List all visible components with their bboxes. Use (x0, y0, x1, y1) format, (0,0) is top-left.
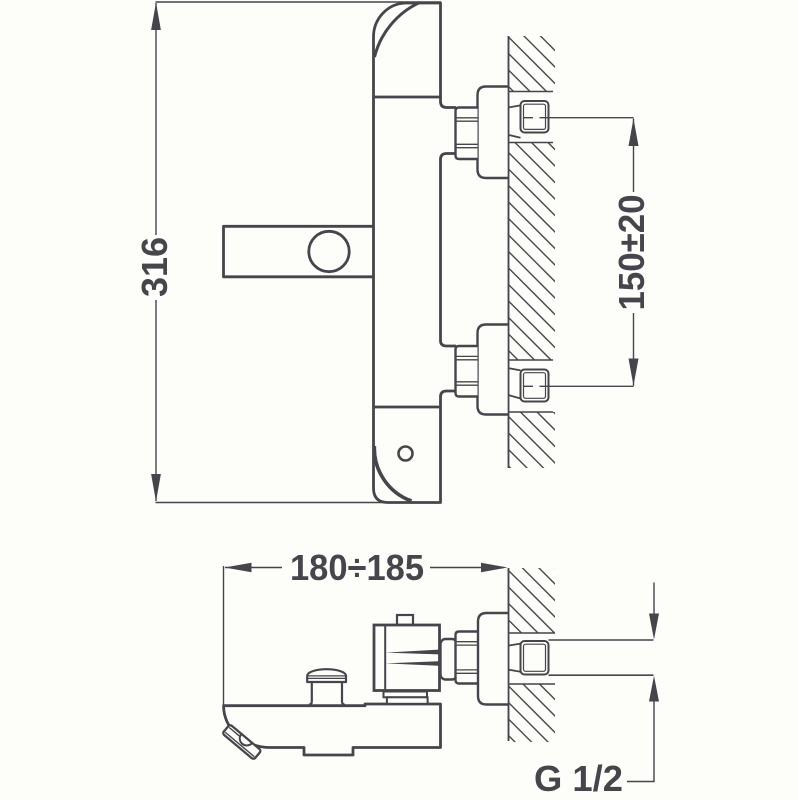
upper eccentric cone (509, 105, 521, 107)
svg-text:150±20: 150±20 (611, 195, 652, 311)
dimension 316 extension line bottom (156, 502, 441, 504)
lower wall hole edges (509, 359, 554, 361)
plan view union nut (456, 632, 478, 684)
lower nut facet lines (457, 355, 478, 357)
top cap inner arc (375, 3, 420, 57)
G 1/2 arrow up (649, 676, 659, 702)
dimension 316 extension line top (156, 1, 442, 3)
spout body outline (plan view) (224, 704, 441, 755)
G 1/2 dimension lines (653, 583, 655, 617)
lower union nut (456, 346, 478, 397)
plan nut facet lines (457, 641, 478, 643)
G 1/2 arrow down (649, 614, 659, 640)
upper pipe centerline (524, 117, 534, 119)
dimension 150±20 arrow up (629, 119, 639, 147)
upper wall hole edges (509, 91, 554, 93)
bottom cap inner arc (374, 446, 411, 501)
lower pipe centerline (524, 385, 534, 387)
plan hex wall plug (521, 641, 549, 675)
wall hatching (upper view) (509, 0, 557, 514)
upper hex wall plug (521, 101, 549, 133)
wall face line overlay (upper) (508, 36, 510, 468)
handle lever (224, 226, 374, 276)
lower view wall hole edges (509, 632, 556, 634)
dimension 180÷185 arrow right (481, 563, 508, 573)
pipe outline G 1/2 (549, 639, 654, 641)
lower wall flange (478, 325, 509, 415)
dimension 150±20 line (633, 119, 635, 193)
lower eccentric cone (509, 368, 521, 370)
cartridge housing (374, 625, 440, 691)
upper union nut (456, 108, 478, 160)
diverter knob cap (307, 669, 346, 682)
wall face line (lower view) (508, 568, 510, 741)
svg-text:G 1/2: G 1/2 (534, 758, 623, 799)
G 1/2 leader (627, 781, 655, 783)
faucet body outline (side view) (374, 3, 457, 503)
dimension 150±20 arrow down (629, 359, 639, 386)
housing base steps (384, 692, 428, 698)
wall face line overlay (lower) (508, 568, 510, 741)
screw hole on body (399, 447, 413, 461)
housing top tab (397, 615, 413, 625)
handle pivot circle (309, 231, 349, 271)
wall hatching (lower view) (509, 521, 557, 783)
diverter knob stem (309, 682, 312, 705)
upper nut facet lines (457, 117, 478, 119)
housing lever wedge 1 (386, 650, 439, 655)
dimension 180÷185 extension line (223, 566, 225, 705)
top cap bottom line (374, 96, 441, 99)
bottom cap top line (374, 406, 441, 409)
dimension 180÷185 line (225, 567, 282, 569)
svg-text:316: 316 (134, 237, 175, 297)
lower hex wall plug (521, 370, 549, 402)
plan view wall flange (478, 613, 509, 705)
aerator on spout tip (222, 724, 261, 760)
wall face line (upper view) (508, 36, 510, 468)
housing lever wedge 2 (386, 661, 439, 666)
housing inner edge line (384, 626, 386, 690)
dimension 316 arrow up (151, 3, 161, 31)
plan eccentric cone (509, 644, 521, 646)
dimension 316 arrow down (151, 474, 161, 502)
dimension 316 line (155, 3, 157, 235)
upper wall flange (478, 87, 509, 179)
connection neck (441, 639, 458, 680)
svg-text:180÷185: 180÷185 (290, 547, 424, 588)
dimension 180÷185 arrow left (225, 563, 252, 573)
